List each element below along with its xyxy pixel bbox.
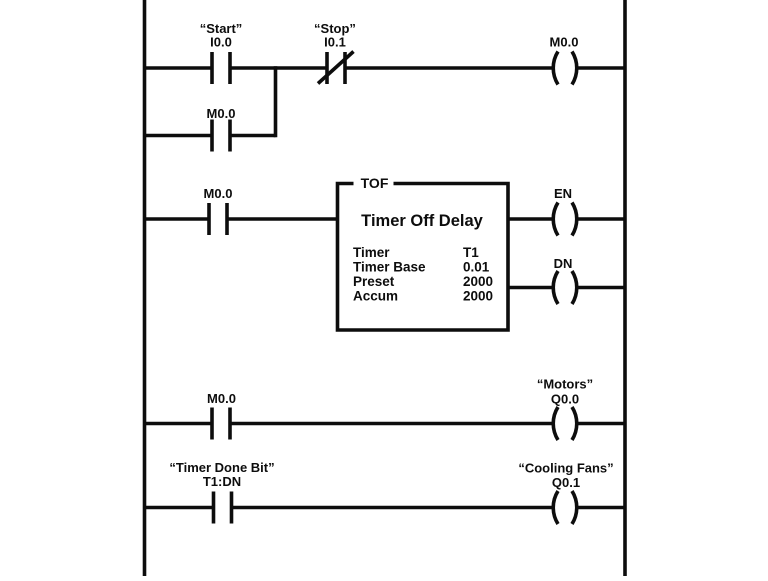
svg-text:2000: 2000: [463, 274, 493, 289]
svg-text:T1: T1: [463, 245, 479, 260]
left power rail: [143, 0, 147, 576]
wire: contact M0.0 to timer box: [227, 217, 338, 221]
rung 1 wire: left rail to contact I0.0: [145, 66, 213, 70]
wire: contact I0.1 to coil M0.0: [345, 66, 553, 70]
svg-text:Preset: Preset: [353, 274, 395, 289]
contact T1:DN "Timer Done Bit": [214, 492, 232, 524]
svg-text:Timer: Timer: [353, 245, 390, 260]
svg-text:“Motors”: “Motors”: [537, 377, 593, 392]
svg-text:I0.1: I0.1: [324, 35, 346, 50]
branch wire: left rail to seal-in contact: [145, 134, 213, 138]
contact I0.1 "Stop" (normally closed): [318, 52, 354, 85]
svg-text:EN: EN: [554, 186, 572, 201]
svg-text:T1:DN: T1:DN: [203, 474, 241, 489]
rung 5 wire: left rail to contact T1:DN: [145, 506, 214, 510]
contact I0.0 "Start": [212, 52, 230, 84]
timer box U1 TOF outline: [338, 184, 509, 331]
contact M0.0 (seal-in): [212, 120, 230, 152]
coil Q0.1 "Cooling Fans": [553, 491, 577, 524]
wire: contact T1:DN to coil Q0.1: [232, 506, 554, 510]
svg-text:“Cooling Fans”: “Cooling Fans”: [518, 461, 613, 476]
coil DN: [553, 271, 577, 304]
wire: contact I0.0 to contact I0.1 (through branch junction): [230, 66, 327, 70]
svg-text:M0.0: M0.0: [207, 106, 236, 121]
svg-text:DN: DN: [554, 256, 573, 271]
right power rail: [623, 0, 627, 576]
wire: coil Q0.0 to right rail: [577, 422, 625, 426]
coil M0.0: [553, 52, 577, 85]
svg-text:Q0.1: Q0.1: [552, 475, 580, 490]
coil EN: [553, 203, 577, 236]
wire: coil M0.0 to right rail: [577, 66, 625, 70]
svg-text:M0.0: M0.0: [550, 35, 579, 50]
svg-text:M0.0: M0.0: [204, 186, 233, 201]
contact M0.0 (timer rung): [209, 203, 227, 235]
coil Q0.0 "Motors": [553, 407, 577, 440]
rung 4 wire: left rail to contact M0.0: [145, 422, 213, 426]
wire: contact M0.0 to coil Q0.0: [230, 422, 553, 426]
contact M0.0 (motors rung): [212, 408, 230, 440]
wire: EN coil to right rail: [577, 217, 625, 221]
rung 2 wire: left rail to contact M0.0: [145, 217, 210, 221]
svg-text:“Timer Done Bit”: “Timer Done Bit”: [169, 460, 274, 475]
svg-text:Accum: Accum: [353, 289, 398, 304]
wire: DN coil to right rail: [577, 286, 625, 290]
svg-text:0.01: 0.01: [463, 260, 490, 275]
svg-text:Timer Base: Timer Base: [353, 260, 426, 275]
wire: coil Q0.1 to right rail: [577, 506, 625, 510]
svg-text:M0.0: M0.0: [207, 391, 236, 406]
svg-text:Timer Off Delay: Timer Off Delay: [361, 212, 483, 230]
svg-text:2000: 2000: [463, 289, 493, 304]
svg-text:TOF: TOF: [361, 175, 389, 191]
wire: timer box EN output to EN coil: [508, 217, 553, 221]
svg-text:Q0.0: Q0.0: [551, 392, 579, 407]
wire: timer box DN output to DN coil: [508, 286, 553, 290]
branch wire: seal-in contact to junction: [230, 134, 276, 138]
svg-text:I0.0: I0.0: [210, 35, 232, 50]
branch vertical wire up to rung 1: [274, 66, 278, 137]
